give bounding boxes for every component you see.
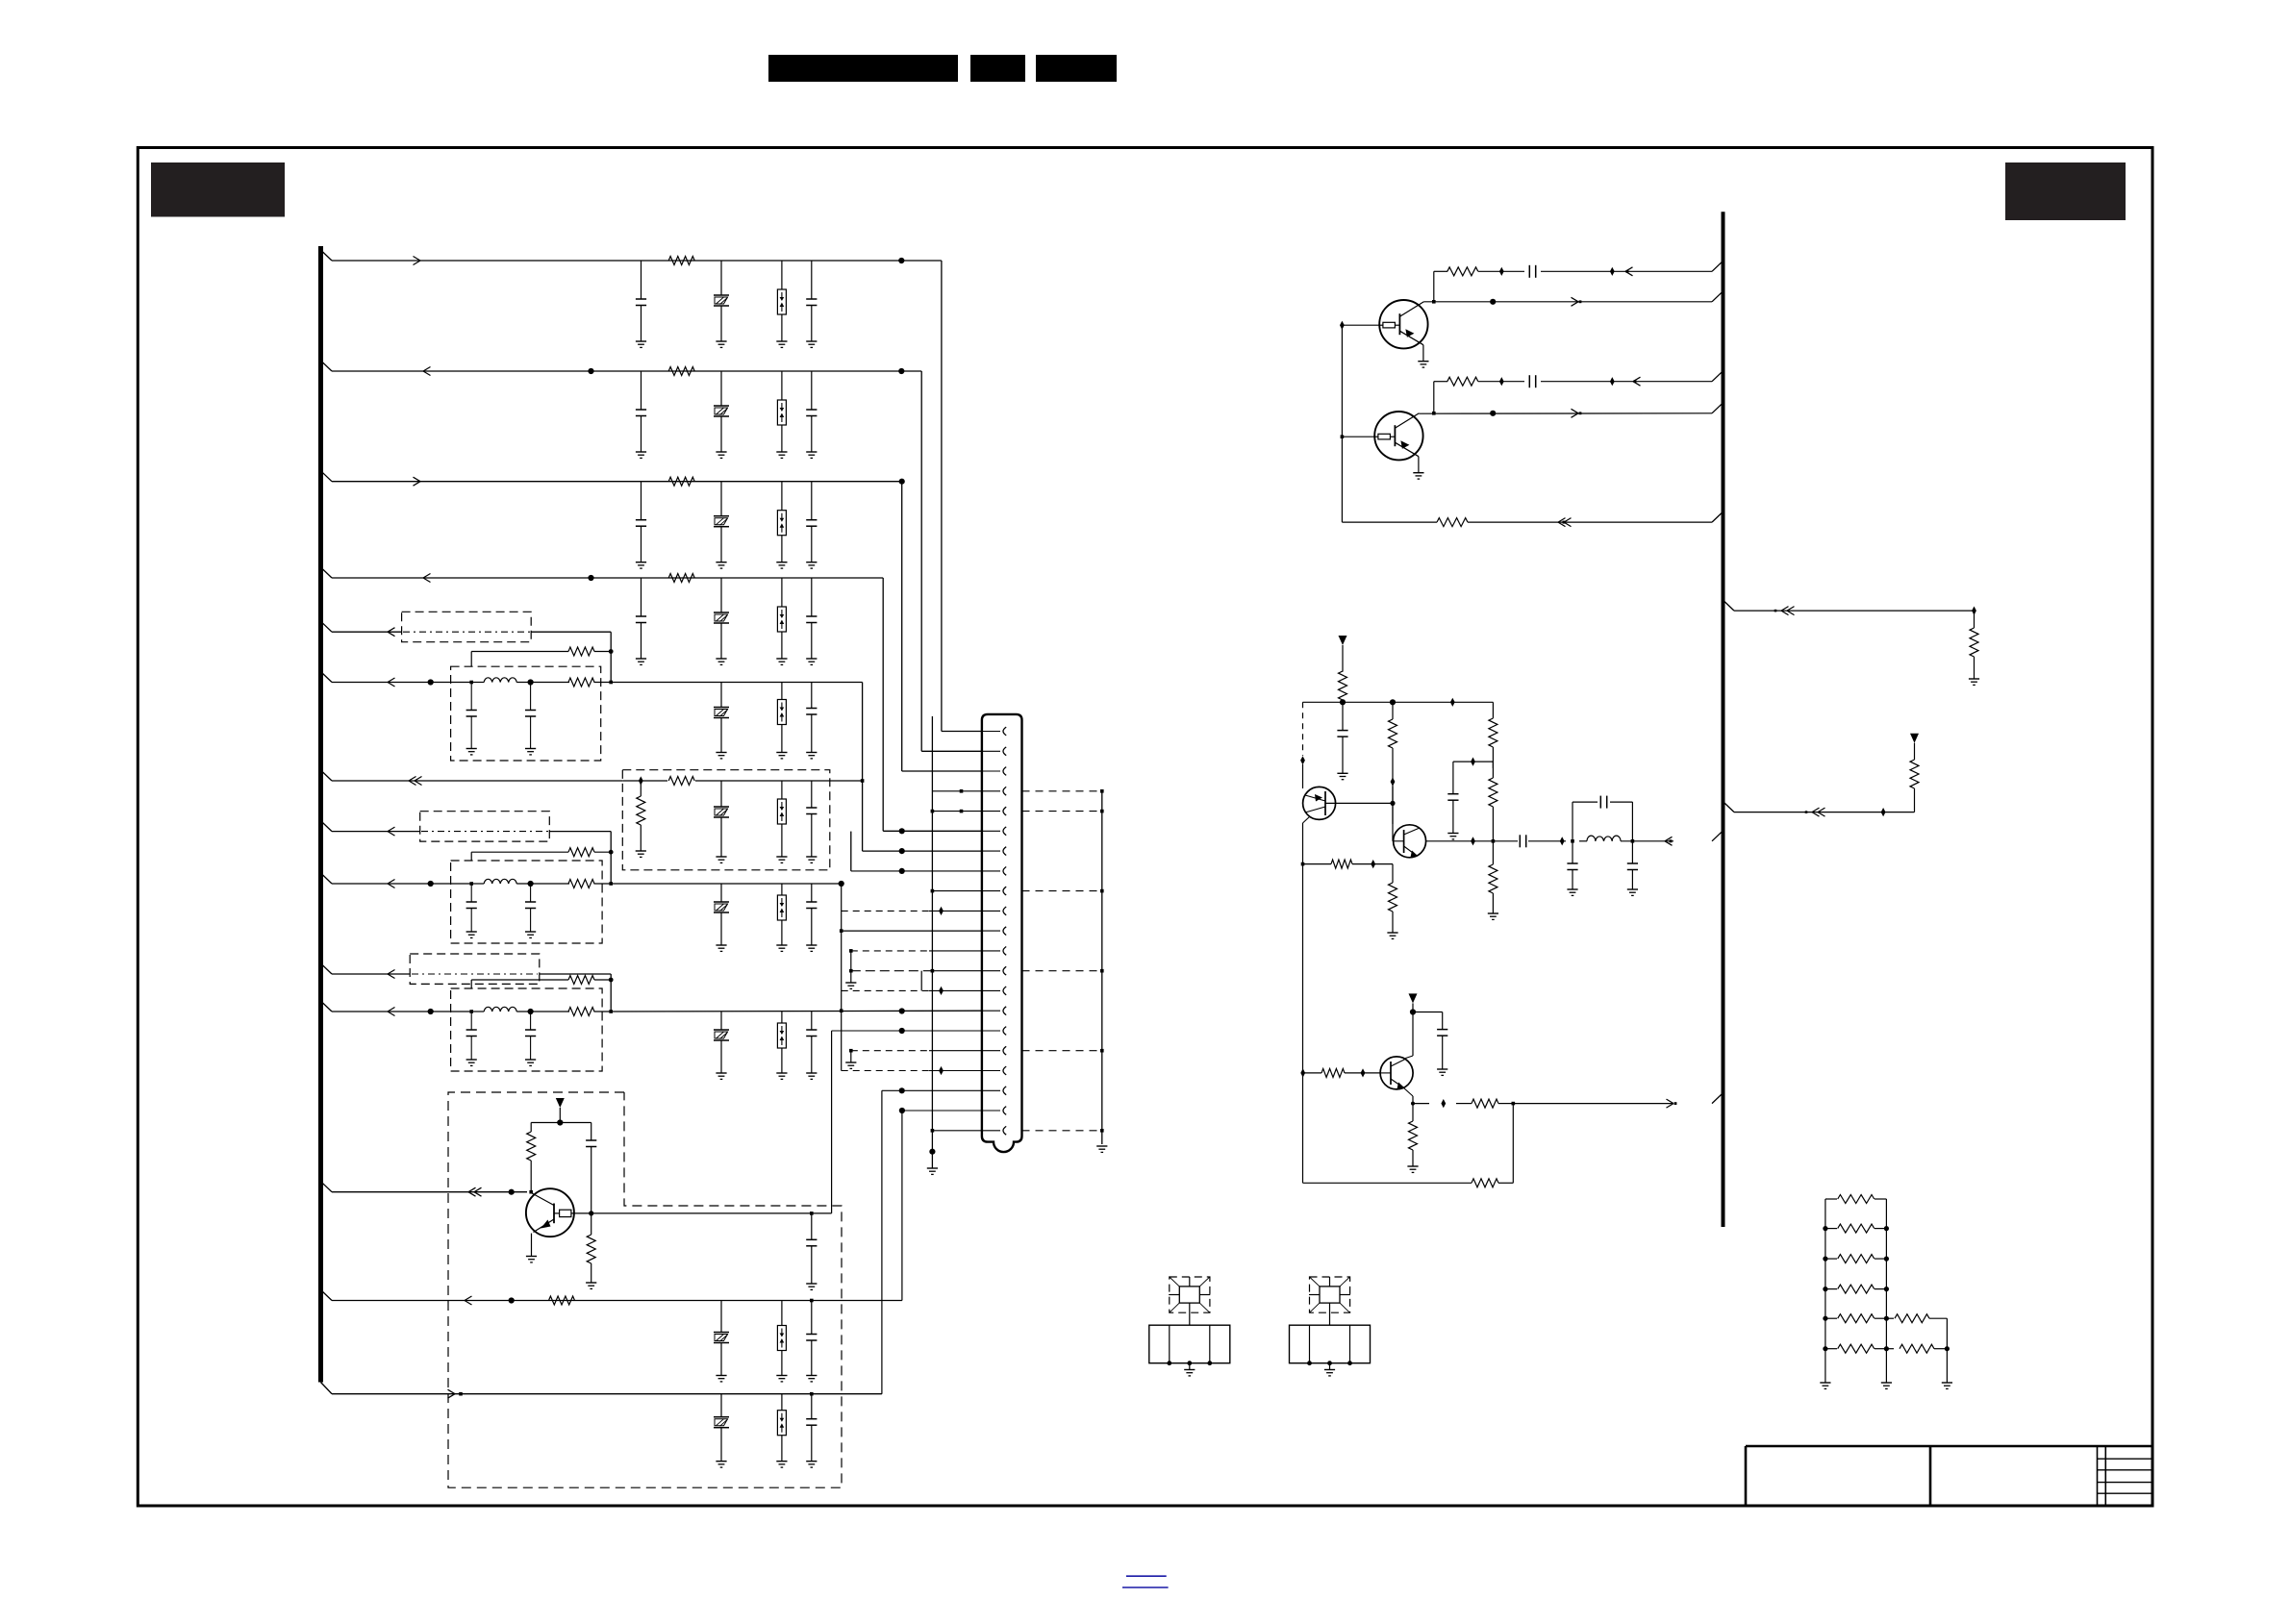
node filter1 mid	[528, 679, 534, 685]
capacitor C28	[1627, 841, 1638, 896]
wire drop b2 to J1 pin2	[921, 371, 982, 751]
wire branch1 from bus	[321, 250, 942, 261]
node loop1 right	[609, 649, 614, 654]
node pin9 tap	[931, 889, 982, 893]
wire base link vertical	[1341, 325, 1343, 522]
resistor R38	[1886, 1314, 1947, 1323]
resistor R23	[1488, 841, 1498, 920]
resistor R5 loop1	[568, 647, 594, 656]
node rail b	[1390, 699, 1396, 705]
ESD diode D9	[776, 1301, 787, 1382]
wire Q3 emitter	[1303, 816, 1311, 864]
wire rowC to rowD	[1432, 382, 1436, 415]
ESD diode D7	[776, 884, 787, 951]
resistor R10	[568, 880, 594, 888]
wire rail to ground	[927, 1131, 938, 1175]
wire pin18 dashed	[842, 1066, 982, 1075]
node filter3 left	[469, 1010, 473, 1013]
arrow Q5 out	[1667, 1099, 1677, 1108]
wire rowC	[1434, 371, 1724, 382]
wire pin14 dashed	[842, 987, 982, 995]
node Q5 out dia	[1441, 1099, 1446, 1108]
arrow branch1	[414, 257, 421, 265]
shield box FB3	[420, 812, 550, 841]
node Q5 top	[1410, 1009, 1416, 1014]
resistor R1	[668, 257, 694, 265]
node Q5 base dia	[1361, 1068, 1366, 1077]
node branch6 exit	[609, 681, 613, 685]
capacitor C20	[806, 1301, 817, 1382]
wire drop b6 to J1 pin7	[863, 683, 982, 852]
transistor Q5	[1380, 1057, 1413, 1089]
resistor R15	[549, 1296, 575, 1305]
resistor R26	[1321, 1068, 1345, 1077]
node em left	[1301, 862, 1305, 866]
wire rowE	[1342, 512, 1723, 522]
resistor R36	[1823, 1314, 1889, 1323]
arrow branch12 double	[468, 1187, 482, 1196]
arrow branch11	[388, 1008, 395, 1016]
redaction box top-right	[2005, 162, 2126, 220]
wire pin16 line	[832, 1028, 982, 1034]
capacitor C21	[806, 1394, 817, 1467]
resonator X2	[1290, 1277, 1371, 1376]
wire branch2 from bus	[321, 361, 922, 371]
node Q5 base left	[1300, 1068, 1305, 1077]
resistor R17	[1447, 377, 1478, 386]
wire branch9 right	[611, 883, 842, 885]
arrow amp out	[1665, 837, 1673, 845]
node rowD	[1490, 411, 1496, 416]
pi filter top cap C26	[1573, 796, 1632, 841]
wire branch10 to drop	[540, 974, 611, 980]
wire branch5 to drop	[531, 632, 611, 651]
wire Q1 base	[1342, 324, 1379, 326]
resistor R4	[668, 574, 694, 583]
node Q6 out cap	[810, 1212, 814, 1215]
wire branch7 from bus	[321, 770, 623, 781]
redaction bar title 1	[768, 55, 958, 82]
ESD diode D8	[776, 1012, 787, 1079]
connector J1 pins 1-21	[982, 727, 1006, 1135]
resistor R29	[1472, 1179, 1498, 1187]
node branch9	[428, 881, 434, 887]
node filter3 mid	[528, 1009, 534, 1014]
resistor R11 loop3	[568, 976, 594, 985]
varistor RV10	[714, 1394, 729, 1467]
wire emitter row	[1303, 863, 1394, 865]
arrow branch2	[423, 367, 431, 376]
resistor R14	[586, 1213, 596, 1289]
node branch2 right	[898, 368, 904, 374]
arrow branch9	[388, 880, 395, 888]
arrow branch8	[388, 827, 395, 836]
wire Q4 collector row	[1426, 831, 1724, 841]
wire Q2 base	[1342, 436, 1374, 437]
inductor L1	[484, 678, 516, 683]
node branch9 exit	[609, 882, 613, 886]
wire pin10 dashed	[842, 907, 982, 915]
wire drop b3 to J1 pin3	[902, 482, 982, 771]
node filter1 left	[469, 681, 473, 685]
resistor R25	[1387, 864, 1397, 939]
node em dia	[1371, 860, 1375, 868]
filter box FL2	[451, 861, 602, 943]
wire pin13-14 link	[920, 971, 922, 991]
arrow line1 double	[1774, 607, 1795, 615]
capacitor C24	[1337, 702, 1347, 779]
wire loop3	[471, 980, 611, 1012]
power flag VCC2	[1339, 636, 1347, 672]
node Q3c junction	[1391, 777, 1396, 786]
wire Q3 collector	[1325, 801, 1396, 806]
resonator X1	[1149, 1277, 1230, 1376]
resistor R9 loop2	[568, 848, 594, 857]
node branch11	[428, 1009, 434, 1014]
arrow branch6	[388, 678, 395, 687]
power flag VCC1	[556, 1098, 565, 1123]
wire busR right line1	[1724, 600, 1975, 611]
resistor R2	[668, 367, 694, 376]
power flag VCC3	[1409, 993, 1418, 1012]
wire Q2 emitter ground	[1413, 457, 1423, 479]
capacitor C10	[525, 683, 536, 755]
resistor R7 shunt	[636, 781, 646, 857]
node branch14 arrow	[448, 1389, 463, 1398]
capacitor C14	[525, 884, 536, 937]
varistor RV4	[714, 578, 729, 664]
wire rowA	[1434, 261, 1724, 271]
node pin7 cross	[899, 848, 905, 854]
node vcc1 rail	[531, 1119, 591, 1125]
varistor RV7	[714, 884, 729, 951]
transistor Q4	[1393, 824, 1426, 858]
capacitor C16	[466, 1012, 477, 1065]
node rail a	[1340, 699, 1346, 705]
node fb corner	[1512, 1102, 1516, 1106]
capacitor C15	[806, 884, 817, 951]
wire branch6 from bus	[321, 672, 472, 683]
arrow branch7 double	[409, 777, 422, 786]
wire rowD	[1419, 403, 1723, 413]
wire branch7 inside	[622, 780, 830, 782]
arrow branch10	[388, 970, 395, 979]
shield box FB4	[410, 954, 540, 984]
wire drop b1 to J1 pin1	[942, 261, 982, 732]
shield box FB1	[402, 612, 532, 641]
capacitor C7	[636, 578, 646, 664]
wire branch14 from bus	[321, 1383, 882, 1396]
capacitor C27	[1567, 841, 1577, 896]
node pin21 tap	[931, 1129, 982, 1133]
node Q4c dia	[1471, 837, 1475, 845]
wire drop b9 to J1 pin11	[840, 929, 982, 933]
wire rowB	[1423, 291, 1723, 302]
wire loop2	[471, 852, 611, 884]
resistor R13	[527, 1123, 536, 1192]
wire pin20 line	[899, 1108, 982, 1113]
resistor R39	[1886, 1344, 1950, 1353]
wire filter1 line	[471, 682, 611, 684]
capacitor C2	[806, 261, 817, 347]
resistor R30	[1969, 611, 1979, 685]
arrow branch3	[414, 477, 421, 486]
wire pin12-13 ground	[845, 951, 856, 989]
node pin5 tap	[931, 810, 982, 813]
varistor RV1	[714, 261, 729, 347]
wire branch11 from bus	[321, 1001, 472, 1012]
wire loop1	[471, 652, 611, 683]
capacitor C22	[1529, 265, 1535, 278]
capacitor C1	[636, 261, 646, 347]
ESD diode D6	[776, 781, 787, 862]
capacitor C29	[1447, 762, 1458, 839]
varistor RV5	[714, 683, 729, 759]
wire branch10 inside	[412, 973, 538, 975]
node pi dia	[1560, 837, 1565, 845]
wire branch13 from bus	[321, 1290, 902, 1303]
wire branch8 to drop	[549, 832, 611, 853]
node Q4c j	[1492, 839, 1496, 843]
resistor R21	[1489, 702, 1497, 768]
resistor R35	[1823, 1285, 1889, 1293]
node branch13	[509, 1297, 515, 1303]
ladder right rail	[1942, 1318, 1952, 1388]
resistor R24	[1331, 860, 1352, 868]
capacitor C25	[1520, 835, 1525, 847]
capacitor C19	[586, 1123, 596, 1214]
arrow rowA	[1625, 267, 1633, 276]
node branch11 exit	[609, 1010, 613, 1013]
capacitor C5	[636, 482, 646, 568]
capacitor C6	[806, 482, 817, 568]
node branch12	[509, 1189, 533, 1195]
varistor RV6	[714, 781, 729, 862]
node rail dia	[1450, 698, 1455, 707]
capacitor C17	[525, 1012, 536, 1065]
resistor R16	[1447, 267, 1478, 276]
redaction bar title 2	[970, 55, 1025, 82]
wire branch5 inside box	[403, 631, 530, 633]
wire Q5 out row	[1413, 1093, 1724, 1104]
capacitor C4	[806, 371, 817, 458]
capacitor C9	[466, 683, 477, 755]
node pin13 tap	[931, 969, 935, 973]
capacitor C18	[806, 1012, 817, 1079]
wire pin19 line	[882, 1087, 982, 1093]
resistor R33	[1823, 1224, 1889, 1233]
varistor RV8	[714, 1012, 729, 1079]
wire Q5 base	[1303, 1072, 1381, 1074]
capacitor C12	[806, 781, 817, 862]
capacitor C8	[806, 578, 817, 664]
filter box FL1	[451, 666, 601, 761]
ESD diode D3	[776, 482, 787, 568]
node pi left	[1571, 839, 1574, 843]
varistor RV9	[714, 1301, 729, 1382]
resistor R34	[1823, 1255, 1889, 1263]
wire rowA to rowB	[1432, 271, 1436, 303]
wire Q5 emitter	[1403, 1087, 1413, 1104]
transistor Q1	[1379, 300, 1427, 348]
wire Q6 emitter	[526, 1234, 537, 1262]
node Q6 collector	[589, 1211, 593, 1215]
power flag VCC4	[1910, 734, 1919, 743]
node pin6 cross	[899, 828, 905, 834]
node branch7	[639, 776, 643, 785]
wire pin20 feed from b13	[901, 1111, 903, 1301]
wire branch4 from bus	[321, 567, 884, 578]
node chain dia	[1453, 758, 1494, 766]
redaction box top-left	[151, 162, 285, 217]
wire branch10 from bus	[321, 963, 411, 974]
node Q5e	[1411, 1102, 1415, 1106]
node branch3 right	[899, 479, 905, 485]
wire branch12 from bus	[321, 1182, 528, 1192]
node rowC d2	[1610, 377, 1615, 386]
wire filter3 line	[471, 1011, 611, 1012]
resistor R12	[568, 1008, 594, 1016]
hyperlink underline 1	[1126, 1575, 1167, 1577]
arrow branch4	[423, 574, 431, 583]
wire left dashed drop	[1302, 702, 1304, 756]
transistor Q3	[1303, 787, 1336, 819]
page frame border	[138, 148, 2152, 1507]
varistor RV3	[714, 482, 729, 568]
ground rail right of J1	[1096, 791, 1107, 1153]
filter box FL3	[451, 988, 602, 1071]
resistor R27	[1472, 1099, 1498, 1108]
node loop2 right	[609, 850, 614, 855]
wire branch9 from bus	[321, 873, 472, 884]
ESD diode D2	[776, 371, 787, 458]
resistor R32	[1825, 1195, 1887, 1204]
wire pin17 line	[845, 1049, 982, 1069]
node filter2 mid	[528, 881, 534, 887]
resistor R20	[1389, 702, 1397, 824]
resistor R19	[1339, 671, 1347, 702]
capacitor C31	[806, 1213, 817, 1290]
node line2 dia	[1881, 808, 1886, 816]
node pin15 cross	[899, 1008, 905, 1013]
transistor Q2	[1374, 412, 1422, 460]
ladder left rail	[1820, 1199, 1830, 1388]
hyperlink underline 2	[1122, 1587, 1169, 1588]
wire branch8 inside	[421, 831, 548, 833]
capacitor C30	[1413, 1012, 1447, 1076]
node filter2 left	[469, 882, 473, 886]
wire filter2 line	[471, 883, 611, 885]
node left drop dia	[1300, 756, 1305, 764]
node pi right	[1631, 839, 1635, 843]
capacitor C23	[1529, 375, 1535, 387]
right signal bus bar	[1722, 212, 1725, 1227]
wire drop b4 to J1 pin6	[883, 578, 982, 831]
arrow rowE double	[1558, 518, 1572, 527]
transistor Q6	[526, 1188, 574, 1237]
resistor R31	[1910, 743, 1919, 812]
node branch7 join	[861, 779, 865, 783]
ladder mid rail	[1881, 1199, 1892, 1388]
node rowC d1	[1499, 377, 1504, 386]
arrow line2 double	[1805, 808, 1825, 816]
node pin4 tap	[932, 789, 982, 793]
wire branch7 to drop	[830, 780, 863, 782]
wire pin19 feed from b14	[881, 1090, 883, 1393]
wire Q4 base drop	[1392, 787, 1394, 841]
ESD diode D10	[776, 1394, 787, 1467]
wire left drop solid	[1302, 764, 1304, 788]
wire pin13 left	[849, 969, 982, 973]
node Q2 base	[1341, 435, 1345, 438]
wire branch5 from bus	[321, 621, 402, 632]
dashed returns to ground rail	[1022, 789, 1104, 1133]
resistor R37	[1823, 1344, 1889, 1353]
resistor R28	[1407, 1104, 1418, 1173]
node branch4 mid	[588, 575, 593, 581]
node rowA d2	[1610, 267, 1615, 276]
node rowB	[1490, 299, 1496, 305]
resistor R3	[668, 477, 694, 486]
capacitor C3	[636, 371, 646, 458]
resistor R6	[568, 678, 594, 687]
arrow rowB	[1572, 297, 1582, 306]
left supply bus bar	[318, 246, 323, 1383]
wire branch11 to J1 pin15	[611, 1010, 982, 1012]
inductor L4	[1587, 836, 1621, 841]
wire pin12 dashed	[849, 949, 982, 953]
varistor RV2	[714, 371, 729, 458]
ESD diode D4	[776, 578, 787, 664]
arrow branch13	[465, 1296, 472, 1305]
ESD diode D1	[776, 261, 787, 347]
node Q1 base	[1340, 321, 1345, 330]
protection box FB2	[622, 770, 830, 870]
wire Q5 collector	[1404, 1012, 1413, 1060]
capacitor C13	[466, 884, 477, 937]
wire feed rail x874	[841, 884, 843, 1071]
wire feedback bottom	[1303, 1104, 1514, 1184]
redaction bar title 3	[1036, 55, 1117, 82]
node branch2 mid	[588, 368, 593, 374]
wire Q6 collector out	[571, 1212, 832, 1214]
title block	[1746, 1446, 2152, 1505]
wire pin16 feed from Q6	[831, 1031, 833, 1213]
inductor L3	[484, 1007, 516, 1012]
node branch6	[428, 679, 434, 685]
wire branch8 from bus	[321, 821, 420, 832]
node rowA d1	[1499, 267, 1504, 276]
wire left long drop	[1302, 864, 1304, 1184]
arrow rowD	[1572, 409, 1582, 417]
wire vertical rail x969	[931, 716, 933, 1131]
node branch1	[898, 258, 904, 263]
node pin8 wire	[851, 832, 982, 874]
large dashed box region	[448, 1092, 842, 1487]
node pin15 cross2	[840, 1009, 843, 1012]
resistor R8	[668, 777, 694, 786]
resistor R22	[1489, 762, 1497, 841]
ESD diode D5	[776, 683, 787, 759]
wire busR right line2	[1724, 802, 1915, 812]
resistor R18	[1437, 518, 1468, 527]
node loop3 right	[609, 978, 614, 983]
connector J1 body	[982, 714, 1022, 1152]
node line1 dia	[1972, 607, 1976, 615]
arrow rowC	[1633, 377, 1641, 386]
wire branch6 right	[611, 682, 862, 684]
wire top rail	[1303, 701, 1494, 703]
